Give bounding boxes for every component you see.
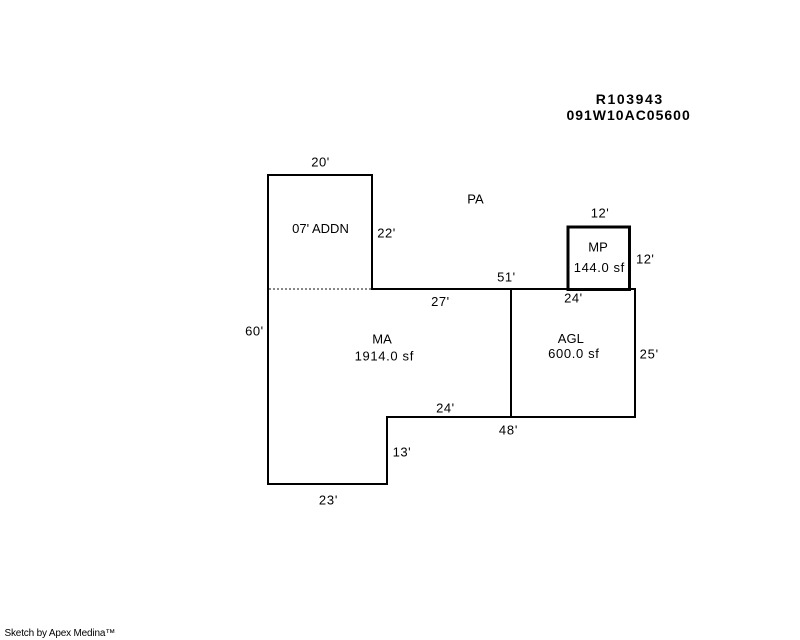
svg-text:600.0 sf: 600.0 sf [548, 346, 599, 361]
svg-text:51': 51' [497, 270, 515, 285]
svg-text:25': 25' [640, 347, 659, 362]
svg-text:60': 60' [245, 324, 263, 339]
wall: ADDN right vertical edge (22') [371, 174, 373, 290]
wall: bottom horizontal edge (24'/48') [386, 416, 636, 418]
wall: bottom-left horizontal edge (23') [267, 483, 388, 485]
wall: ADDN top edge (20') [267, 174, 373, 176]
dotted division line between ADDN and MA [269, 288, 371, 290]
svg-text:Sketch by Apex Medina™: Sketch by Apex Medina™ [5, 628, 116, 639]
svg-text:07' ADDN: 07' ADDN [292, 221, 349, 236]
svg-text:PA: PA [467, 192, 484, 207]
MP square outline [568, 227, 630, 290]
svg-text:27': 27' [431, 294, 449, 309]
svg-text:MA: MA [372, 332, 392, 347]
svg-text:24': 24' [564, 291, 582, 306]
svg-text:1914.0 sf: 1914.0 sf [355, 348, 414, 363]
svg-text:091W10AC05600: 091W10AC05600 [566, 107, 690, 123]
svg-text:48': 48' [499, 423, 518, 438]
svg-text:13': 13' [393, 445, 411, 460]
wall: step vertical edge (13') [386, 416, 388, 485]
svg-text:MP: MP [588, 240, 608, 255]
wall: divider between MA and AGL [510, 288, 512, 418]
svg-text:20': 20' [311, 155, 329, 170]
wall: left vertical edge (60') [267, 174, 269, 485]
wall: AGL right vertical edge (25') [634, 288, 636, 418]
wall: main horizontal edge (27'/51') [371, 288, 636, 290]
svg-text:23': 23' [319, 493, 338, 508]
svg-text:R103943: R103943 [596, 91, 664, 107]
svg-text:12': 12' [591, 206, 609, 221]
svg-text:22': 22' [377, 225, 395, 240]
svg-text:12': 12' [636, 251, 654, 266]
svg-text:144.0 sf: 144.0 sf [574, 260, 625, 275]
svg-text:24': 24' [436, 400, 454, 415]
svg-text:AGL: AGL [558, 331, 584, 346]
